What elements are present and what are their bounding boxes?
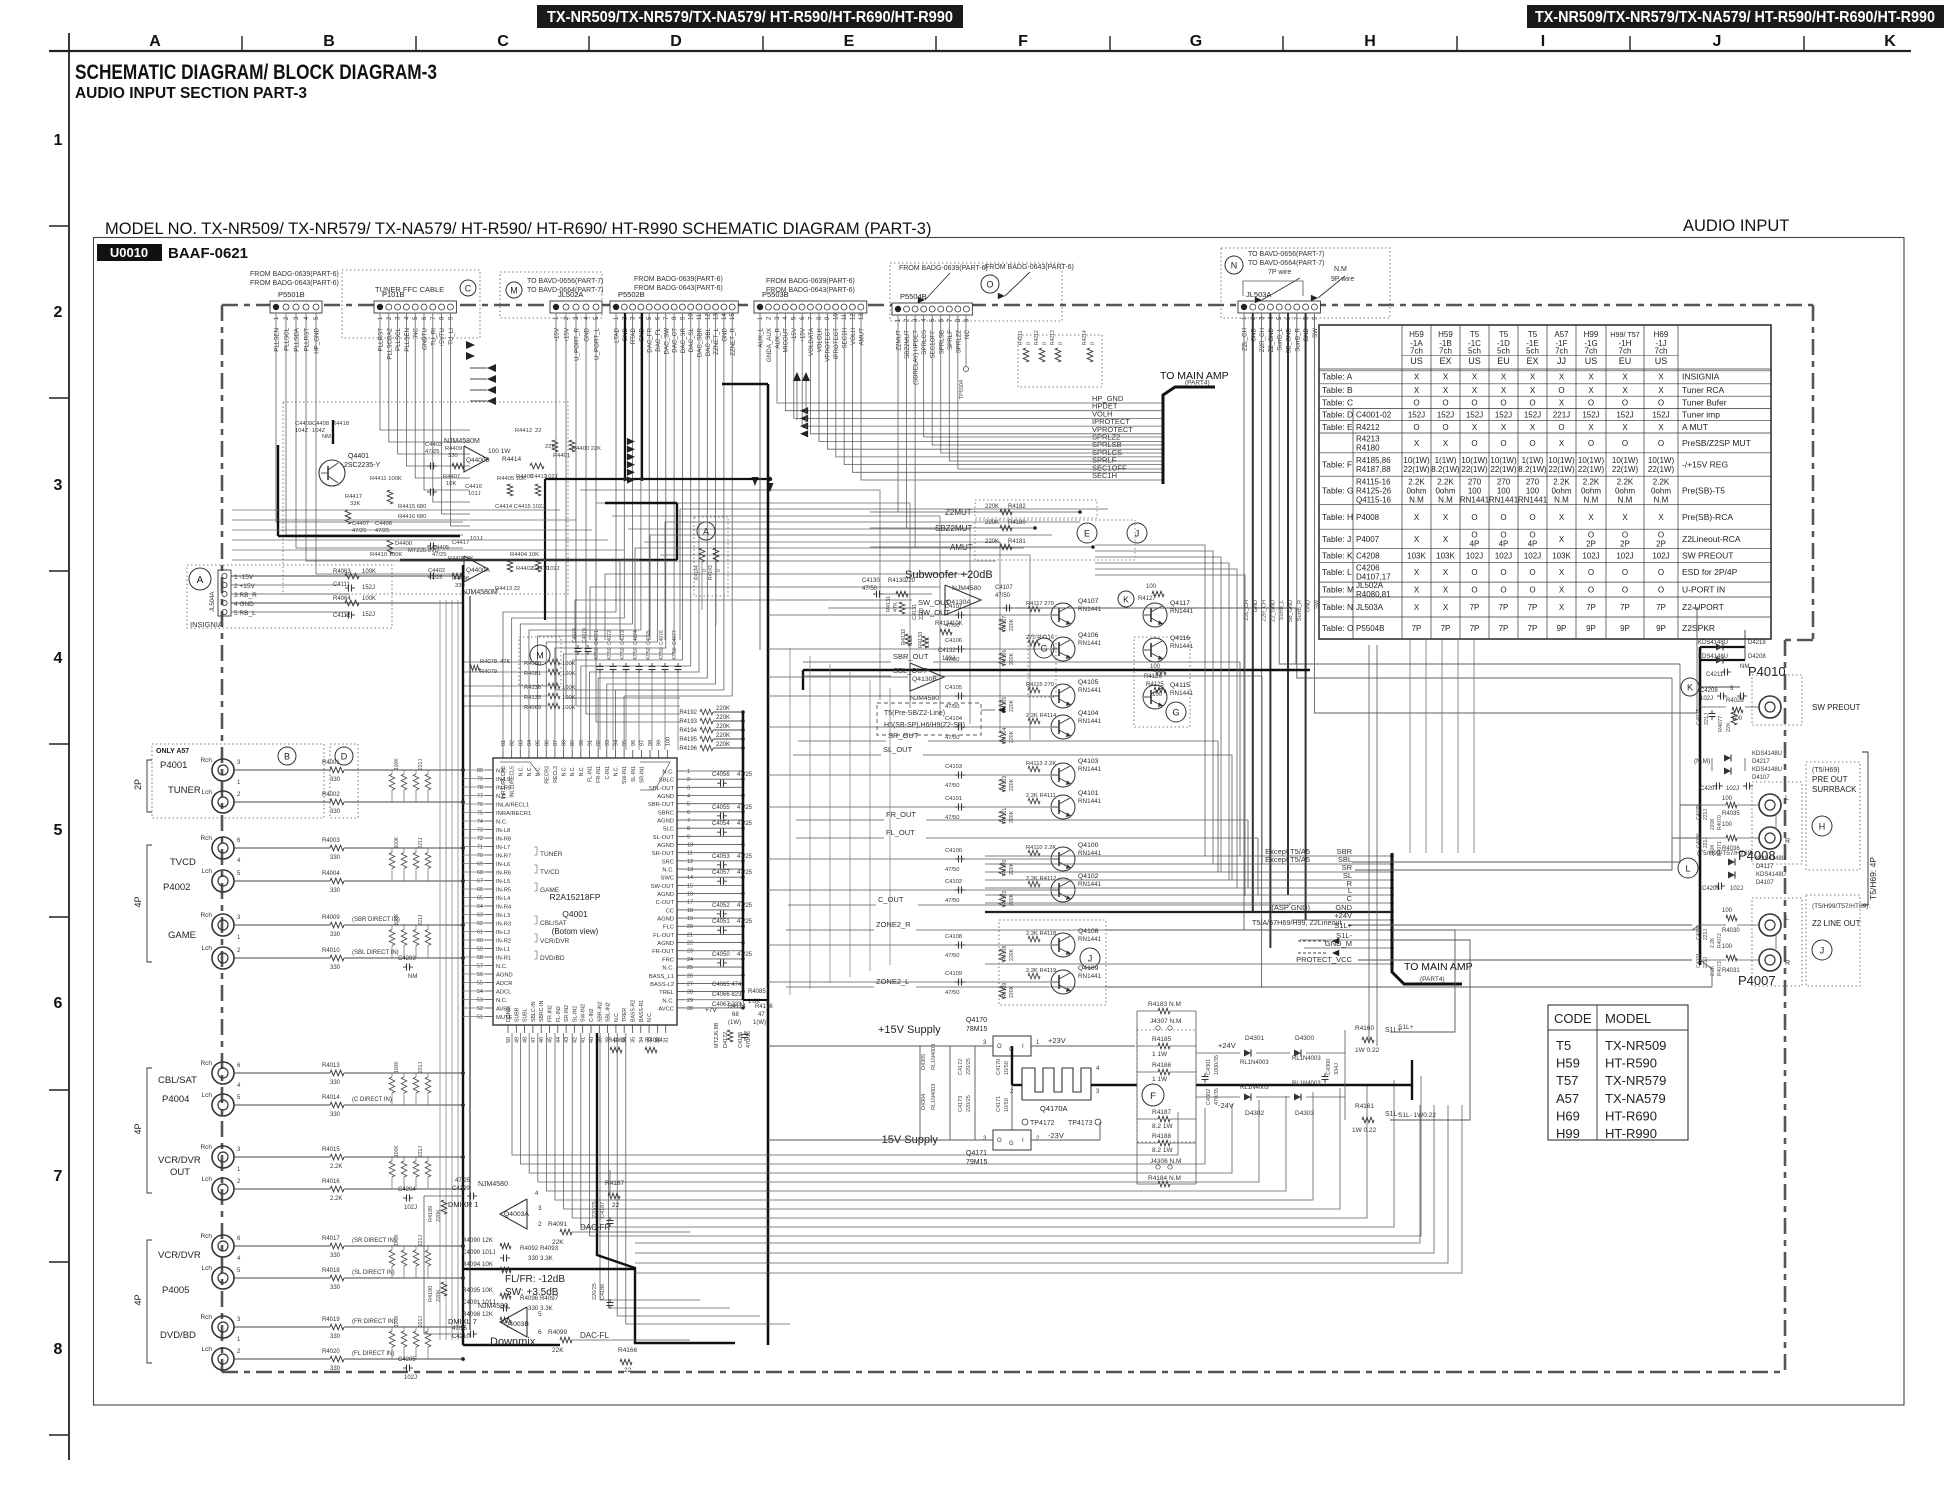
- svg-text:SBR-IN2: SBR-IN2: [597, 1001, 603, 1022]
- svg-text:X: X: [1414, 386, 1420, 395]
- svg-text:H99: H99: [1556, 1126, 1580, 1141]
- svg-text:220K: 220K: [985, 504, 999, 510]
- svg-text:N.C.: N.C.: [579, 766, 585, 776]
- svg-text:47/50: 47/50: [862, 586, 878, 592]
- wire verticals under table: [1410, 640, 1474, 853]
- svg-text:Z2R_CH: Z2R_CH: [1262, 600, 1268, 621]
- svg-text:Pre(SB)-T5: Pre(SB)-T5: [1682, 485, 1725, 495]
- svg-text:R4115 270: R4115 270: [1026, 682, 1054, 688]
- svg-text:X: X: [1414, 439, 1420, 448]
- svg-text:N.C.: N.C.: [527, 766, 533, 776]
- svg-text:47/25: 47/25: [737, 821, 753, 827]
- wire long horizontals left: [232, 510, 640, 560]
- svg-text:R4099: R4099: [548, 1329, 568, 1336]
- svg-text:X: X: [1622, 423, 1628, 432]
- svg-text:221J: 221J: [418, 837, 424, 848]
- svg-text:SPRLZ2: SPRLZ2: [955, 329, 962, 353]
- jack feed wires: [234, 760, 463, 1372]
- svg-text:+15V: +15V: [564, 327, 571, 342]
- svg-text:Lch: Lch: [202, 1346, 213, 1353]
- svg-text:-24V: -24V: [1218, 1101, 1234, 1110]
- svg-text:221J: 221J: [418, 914, 424, 925]
- svg-text:22(1W): 22(1W): [1612, 465, 1639, 474]
- svg-text:30: 30: [687, 1006, 693, 1012]
- z2 line out labels: [1812, 903, 1870, 928]
- svg-text:R4194: R4194: [679, 728, 697, 734]
- svg-text:RL1N4003: RL1N4003: [1292, 1081, 1321, 1087]
- svg-text:R4080,81: R4080,81: [1356, 590, 1391, 599]
- svg-text:R4028: R4028: [1726, 698, 1744, 704]
- svg-text:R4019: R4019: [322, 1317, 340, 1323]
- svg-text:N.C.: N.C.: [496, 794, 508, 800]
- svg-text:Tuner Bufer: Tuner Bufer: [1682, 397, 1727, 407]
- svg-text:FLC: FLC: [663, 925, 674, 931]
- svg-text:J4307 N.M: J4307 N.M: [1150, 1018, 1181, 1025]
- svg-text:H: H: [1819, 822, 1826, 832]
- svg-text:330 3.3K: 330 3.3K: [528, 1255, 554, 1262]
- svg-text:G: G: [1040, 644, 1047, 654]
- svg-text:100K: 100K: [562, 661, 576, 667]
- svg-text:54: 54: [477, 989, 483, 995]
- svg-text:100: 100: [665, 737, 671, 746]
- svg-text:R4131: R4131: [886, 596, 892, 612]
- svg-text:SEC1H: SEC1H: [842, 328, 849, 349]
- svg-text:ZZNET_R: ZZNET_R: [730, 327, 737, 355]
- svg-text:330: 330: [330, 1112, 341, 1118]
- svg-text:7ch: 7ch: [1439, 347, 1452, 356]
- svg-text:N.C.: N.C.: [496, 998, 508, 1004]
- svg-text:100K: 100K: [562, 695, 576, 701]
- svg-text:IN-L6: IN-L6: [496, 862, 510, 868]
- svg-text:(SBR DIRECT IN): (SBR DIRECT IN): [352, 917, 400, 923]
- svg-text:X: X: [1658, 513, 1664, 522]
- svg-text:1000/35: 1000/35: [1214, 1055, 1220, 1075]
- svg-text:8.2(1W): 8.2(1W): [1431, 465, 1460, 474]
- svg-text:R4092 R4093: R4092 R4093: [520, 1245, 559, 1252]
- svg-text:PLLSEN: PLLSEN: [404, 328, 411, 352]
- svg-text:X: X: [1588, 372, 1594, 381]
- svg-text:NM: NM: [408, 974, 417, 980]
- svg-text:SUBL: SUBL: [523, 1008, 529, 1022]
- P4007 connector: [1696, 850, 1790, 988]
- model line: [105, 220, 931, 238]
- svg-text:47/25: 47/25: [375, 528, 390, 534]
- svg-text:N.M: N.M: [1554, 495, 1569, 504]
- svg-text:C4208: C4208: [1700, 688, 1718, 694]
- svg-text:11: 11: [697, 313, 703, 320]
- svg-text:AUDIO INPUT SECTION PART-3: AUDIO INPUT SECTION PART-3: [75, 85, 307, 102]
- svg-text:FROM BADG-0643(PART-6): FROM BADG-0643(PART-6): [250, 280, 339, 287]
- svg-text:G: G: [1172, 708, 1179, 718]
- svg-text:IN-R3: IN-R3: [496, 922, 511, 928]
- svg-text:2P: 2P: [1586, 539, 1596, 548]
- audio input caption: [1683, 217, 1789, 235]
- svg-text:47/50: 47/50: [945, 990, 960, 996]
- svg-text:90: 90: [579, 740, 585, 746]
- svg-text:Table: B: Table: B: [1322, 385, 1353, 395]
- svg-text:P4005: P4005: [162, 1285, 189, 1296]
- svg-text:IPROTECT: IPROTECT: [833, 328, 840, 360]
- svg-text:83: 83: [518, 740, 524, 746]
- svg-text:C4210: C4210: [452, 1334, 470, 1340]
- svg-text:26: 26: [687, 973, 693, 979]
- svg-text:O: O: [1529, 586, 1535, 595]
- svg-text:152J: 152J: [1652, 411, 1669, 420]
- svg-text:152J: 152J: [1524, 411, 1541, 420]
- svg-text:RECL3: RECL3: [553, 766, 559, 783]
- svg-text:MTZJ6.8B: MTZJ6.8B: [714, 1022, 720, 1048]
- svg-text:R4184 N.M: R4184 N.M: [1148, 1175, 1181, 1182]
- svg-text:25: 25: [687, 965, 693, 971]
- svg-text:R4196: R4196: [679, 746, 697, 752]
- svg-text:100K: 100K: [562, 705, 576, 711]
- svg-text:2.2K: 2.2K: [1617, 477, 1634, 486]
- svg-text:330: 330: [330, 809, 341, 815]
- svg-text:DAC_CT: DAC_CT: [672, 328, 679, 353]
- svg-text:Tuner RCA: Tuner RCA: [1682, 385, 1725, 395]
- dotted box preout: [1752, 782, 1802, 864]
- svg-text:KDS4148U: KDS4148U: [1698, 654, 1728, 660]
- svg-text:SBR-OUT: SBR-OUT: [648, 802, 675, 808]
- svg-text:330: 330: [330, 777, 341, 783]
- svg-text:R4415 680: R4415 680: [398, 504, 426, 510]
- svg-text:RN1441: RN1441: [1078, 718, 1102, 725]
- svg-text:100K: 100K: [562, 685, 576, 691]
- wire fan P5504B: [896, 315, 1164, 547]
- svg-text:22K: 22K: [552, 1347, 564, 1354]
- svg-text:102J: 102J: [404, 1205, 417, 1211]
- svg-text:SLC: SLC: [663, 827, 674, 833]
- svg-text:D4301: D4301: [1245, 1035, 1265, 1042]
- svg-text:49: 49: [514, 1037, 520, 1043]
- svg-text:ADCR: ADCR: [496, 981, 512, 987]
- svg-text:N.C.: N.C.: [518, 766, 524, 776]
- svg-text:42: 42: [572, 1037, 578, 1043]
- svg-text:0ohm: 0ohm: [1615, 486, 1635, 495]
- svg-text:102J: 102J: [404, 1375, 417, 1381]
- svg-text:N.C.: N.C.: [662, 966, 674, 972]
- svg-text:10(1W): 10(1W): [1461, 456, 1488, 465]
- svg-text:22(1W): 22(1W): [1403, 465, 1430, 474]
- svg-text:47/25: 47/25: [425, 449, 440, 455]
- svg-text:A57: A57: [1554, 330, 1569, 339]
- svg-text:221J: 221J: [418, 1062, 424, 1073]
- svg-text:JL504A: JL504A: [210, 592, 216, 612]
- svg-text:Q4400A: Q4400A: [466, 567, 491, 574]
- svg-text:AMUT: AMUT: [858, 328, 865, 346]
- svg-text:X: X: [1588, 513, 1594, 522]
- svg-text:Z2Lineout-RCA: Z2Lineout-RCA: [1682, 534, 1741, 544]
- svg-text:R4079: R4079: [480, 669, 497, 675]
- svg-text:RL1N4003: RL1N4003: [931, 1044, 937, 1070]
- svg-text:R4187: R4187: [1152, 1109, 1172, 1116]
- svg-text:R4070: R4070: [1717, 815, 1723, 830]
- svg-text:E: E: [1084, 529, 1090, 539]
- svg-text:47/25: 47/25: [352, 528, 367, 534]
- svg-text:1 1W: 1 1W: [1152, 1076, 1168, 1083]
- svg-text:44: 44: [556, 1037, 562, 1043]
- svg-text:3: 3: [538, 1205, 542, 1212]
- svg-text:48: 48: [523, 1037, 529, 1043]
- svg-text:14: 14: [722, 313, 728, 320]
- svg-text:21: 21: [687, 932, 693, 938]
- svg-text:X: X: [1530, 386, 1536, 395]
- svg-text:7P: 7P: [1441, 624, 1451, 633]
- svg-text:27: 27: [687, 981, 693, 987]
- svg-text:X: X: [1443, 535, 1449, 544]
- svg-text:Q4401: Q4401: [348, 453, 369, 460]
- svg-text:10(1W): 10(1W): [1548, 456, 1575, 465]
- svg-text:5 RB_L: 5 RB_L: [234, 610, 256, 617]
- svg-text:X: X: [1622, 386, 1628, 395]
- svg-text:N.C.: N.C.: [496, 820, 508, 826]
- svg-text:23: 23: [687, 949, 693, 955]
- svg-text:Table: M: Table: M: [1322, 585, 1354, 595]
- svg-text:L: L: [1685, 864, 1690, 874]
- svg-text:TP4173: TP4173: [1068, 1120, 1093, 1127]
- svg-text:X: X: [1559, 439, 1565, 448]
- svg-text:BAAF-0621: BAAF-0621: [168, 245, 248, 262]
- svg-text:104Z: 104Z: [295, 428, 309, 434]
- wire fan P5501B/P101B/JL502A: [276, 313, 680, 722]
- svg-text:J: J: [1820, 946, 1825, 956]
- svg-text:Z2 UPORT: Z2 UPORT: [1682, 602, 1724, 612]
- svg-text:O: O: [1658, 568, 1664, 577]
- svg-text:SCHEMATIC DIAGRAM/ BLOCK DIAGR: SCHEMATIC DIAGRAM/ BLOCK DIAGRAM-3: [75, 61, 437, 84]
- svg-text:Q4117: Q4117: [1170, 600, 1190, 607]
- svg-text:R4017: R4017: [322, 1236, 340, 1242]
- svg-text:4: 4: [687, 794, 690, 800]
- svg-text:O: O: [1471, 398, 1477, 407]
- svg-text:FROM BADG-0639(PART-6): FROM BADG-0639(PART-6): [250, 271, 339, 278]
- svg-text:R4418: R4418: [332, 421, 349, 427]
- svg-text:330: 330: [330, 1366, 341, 1372]
- svg-text:Z2SPKR: Z2SPKR: [1682, 623, 1715, 633]
- kds diodes mid: [1694, 751, 1782, 792]
- svg-text:SR_OUT: SR_OUT: [888, 731, 919, 740]
- svg-text:R4013: R4013: [322, 1063, 340, 1069]
- svg-text:220/25: 220/25: [966, 1095, 972, 1112]
- svg-text:TUNER FFC CABLE: TUNER FFC CABLE: [375, 285, 444, 294]
- svg-text:221J: 221J: [418, 1146, 424, 1157]
- svg-text:330: 330: [330, 855, 341, 861]
- svg-text:88: 88: [562, 740, 568, 746]
- svg-text:IN-L5: IN-L5: [496, 879, 510, 885]
- svg-text:SurrB_R: SurrB_R: [1294, 327, 1301, 351]
- dotted box preout label: [1806, 762, 1860, 870]
- svg-text:I: I: [1541, 33, 1545, 50]
- svg-text:10: 10: [689, 313, 695, 320]
- svg-text:GAME: GAME: [540, 887, 560, 894]
- svg-text:152J: 152J: [362, 585, 375, 591]
- svg-text:220K: 220K: [716, 724, 730, 730]
- svg-text:O: O: [1658, 439, 1664, 448]
- svg-text:H69: H69: [1654, 330, 1669, 339]
- svg-text:33K: 33K: [350, 501, 360, 507]
- svg-text:C4130: C4130: [862, 578, 880, 584]
- svg-text:78M15: 78M15: [966, 1026, 988, 1033]
- svg-text:K: K: [1687, 683, 1693, 693]
- svg-text:7P: 7P: [1528, 603, 1538, 612]
- svg-text:DMIXR 1: DMIXR 1: [448, 1200, 478, 1209]
- svg-text:C-IN2: C-IN2: [589, 1008, 595, 1022]
- svg-text:T5/A/57H69/H99, Z2Lineout: T5/A/57H69/H99, Z2Lineout: [1252, 918, 1342, 927]
- svg-text:74: 74: [477, 819, 483, 825]
- svg-text:R4402: R4402: [516, 566, 533, 572]
- svg-text:R4401: R4401: [553, 453, 570, 459]
- svg-text:7: 7: [687, 818, 690, 824]
- svg-text:GND: GND: [584, 327, 591, 341]
- svg-text:C: C: [1347, 894, 1353, 903]
- svg-text:C4204: C4204: [398, 1187, 416, 1193]
- svg-text:R4409: R4409: [445, 446, 462, 452]
- svg-text:9P: 9P: [1620, 624, 1630, 633]
- svg-text:N.C.: N.C.: [647, 1012, 653, 1022]
- svg-text:11: 11: [687, 851, 693, 857]
- svg-text:BASS-R1: BASS-R1: [639, 1000, 645, 1022]
- svg-text:IN-R9: IN-R9: [496, 786, 511, 792]
- svg-text:TO MAIN AMP: TO MAIN AMP: [1404, 961, 1473, 973]
- svg-text:(Botom view): (Botom view): [552, 927, 599, 936]
- svg-text:SW PREOUT: SW PREOUT: [1682, 550, 1733, 560]
- svg-text:Lch: Lch: [202, 1092, 213, 1099]
- svg-text:O: O: [1500, 586, 1506, 595]
- svg-text:C4208: C4208: [1356, 551, 1380, 560]
- svg-text:C: C: [497, 33, 509, 50]
- svg-text:C4132: C4132: [938, 648, 956, 654]
- svg-text:79M15: 79M15: [966, 1159, 988, 1166]
- svg-text:0: 0: [1026, 342, 1032, 345]
- svg-text:+15V: +15V: [800, 327, 807, 342]
- svg-text:G: G: [1190, 33, 1202, 50]
- svg-text:R4212: R4212: [1356, 423, 1380, 432]
- svg-text:Table: L: Table: L: [1322, 567, 1352, 577]
- svg-text:47/25: 47/25: [737, 919, 753, 925]
- svg-text:SB_GND: SB_GND: [1288, 600, 1294, 623]
- svg-text:R4009: R4009: [322, 915, 340, 921]
- svg-text:47/50: 47/50: [945, 783, 960, 789]
- svg-text:HT-R590: HT-R590: [1605, 1056, 1657, 1071]
- preout surrback labels: [1812, 767, 1857, 794]
- wire feeders mid-right: [1095, 545, 1245, 896]
- svg-text:Q4130A: Q4130A: [946, 599, 971, 606]
- svg-text:DAC-FL: DAC-FL: [580, 1331, 609, 1340]
- svg-text:GND: GND: [1253, 600, 1259, 612]
- svg-text:X: X: [1658, 372, 1664, 381]
- transistor rc rows: [945, 601, 1057, 999]
- svg-text:R4416 680: R4416 680: [398, 514, 426, 520]
- svg-text:X: X: [1472, 386, 1478, 395]
- svg-text:NM: NM: [322, 434, 331, 440]
- svg-text:C4209: C4209: [452, 1186, 470, 1192]
- svg-text:C4036: C4036: [1696, 833, 1702, 848]
- svg-text:H59: H59: [1556, 1056, 1580, 1071]
- svg-text:221J: 221J: [1703, 809, 1709, 820]
- svg-text:O: O: [1471, 439, 1477, 448]
- svg-text:100K: 100K: [394, 836, 400, 848]
- dotted box tuner buffer block: [283, 402, 568, 594]
- svg-text:152J: 152J: [1582, 411, 1599, 420]
- svg-text:2.2K: 2.2K: [330, 1164, 342, 1170]
- svg-text:D4117: D4117: [1756, 864, 1774, 870]
- diode bridge: [1196, 1025, 1402, 1134]
- svg-text:CBL/SAT: CBL/SAT: [540, 920, 567, 927]
- svg-text:4P: 4P: [133, 896, 143, 907]
- svg-text:57: 57: [477, 964, 483, 970]
- svg-text:R4182: R4182: [1008, 504, 1026, 510]
- svg-text:PRE OUT: PRE OUT: [1812, 775, 1848, 784]
- svg-text:R4130: R4130: [888, 578, 906, 584]
- svg-text:22(1W): 22(1W): [1490, 465, 1517, 474]
- svg-text:R4101: R4101: [1002, 808, 1008, 823]
- svg-text:100 1W: 100 1W: [488, 448, 511, 455]
- svg-text:+7V: +7V: [705, 1007, 717, 1014]
- svg-text:X: X: [1559, 603, 1565, 612]
- svg-text:AGND: AGND: [657, 941, 674, 947]
- interstage caps: [398, 956, 417, 1381]
- svg-text:Lch: Lch: [202, 1265, 213, 1272]
- svg-text:C4205: C4205: [398, 1357, 416, 1363]
- svg-text:100: 100: [1722, 796, 1733, 802]
- svg-text:INSIGNIA: INSIGNIA: [190, 620, 223, 629]
- t5 option text: [884, 707, 1005, 729]
- dotted box P4001 group: [152, 744, 324, 818]
- svg-text:R4014: R4014: [322, 1095, 340, 1101]
- svg-text:Lch: Lch: [202, 945, 213, 952]
- svg-text:R4410 100K: R4410 100K: [370, 552, 402, 558]
- wire s1l lines: [1390, 930, 1470, 1120]
- svg-text:KDS4148U: KDS4148U: [1752, 751, 1782, 757]
- svg-text:220K: 220K: [1009, 652, 1015, 665]
- svg-text:2.2K R4114: 2.2K R4114: [1026, 713, 1057, 719]
- svg-text:IN-R4: IN-R4: [496, 905, 512, 911]
- svg-text:SR-IN2: SR-IN2: [564, 1005, 570, 1022]
- svg-text:80: 80: [477, 768, 483, 774]
- svg-text:SL-IN2: SL-IN2: [572, 1006, 578, 1022]
- svg-text:J4306 N.M: J4306 N.M: [1150, 1158, 1181, 1165]
- svg-text:5ch: 5ch: [1468, 347, 1481, 356]
- svg-text:AGND: AGND: [496, 973, 513, 979]
- svg-text:IN-R8: IN-R8: [496, 837, 511, 843]
- svg-text:O: O: [1622, 398, 1628, 407]
- svg-text:IN-L4: IN-L4: [496, 896, 511, 902]
- svg-text:TUNER: TUNER: [168, 785, 201, 796]
- svg-text:R4213: R4213: [1050, 330, 1056, 345]
- ref circle J right: [1812, 940, 1832, 960]
- ref circle E: [1077, 523, 1097, 543]
- svg-text:47/50: 47/50: [945, 953, 960, 959]
- svg-text:R4193: R4193: [679, 719, 697, 725]
- svg-text:DAC_SL: DAC_SL: [688, 327, 695, 352]
- out signal drops: [1218, 662, 1290, 905]
- svg-text:16: 16: [687, 892, 693, 898]
- svg-text:C4111: C4111: [333, 582, 350, 588]
- svg-text:X: X: [1443, 386, 1449, 395]
- svg-text:FR-OUT: FR-OUT: [652, 949, 674, 955]
- svg-text:X: X: [1414, 586, 1420, 595]
- svg-text:C4112: C4112: [333, 613, 351, 619]
- svg-text:C4207: C4207: [1700, 786, 1718, 792]
- svg-text:IN-L2: IN-L2: [496, 930, 510, 936]
- svg-text:O: O: [1529, 398, 1535, 407]
- wire sw preout run: [1015, 608, 1296, 664]
- svg-text:56: 56: [477, 972, 483, 978]
- svg-text:TX-NR509: TX-NR509: [1605, 1038, 1666, 1053]
- svg-text:C4057: C4057: [712, 870, 730, 876]
- dotted box D option: [330, 744, 358, 818]
- mute resistor rows: [870, 504, 1095, 552]
- wire nested elbows right: [580, 477, 1030, 740]
